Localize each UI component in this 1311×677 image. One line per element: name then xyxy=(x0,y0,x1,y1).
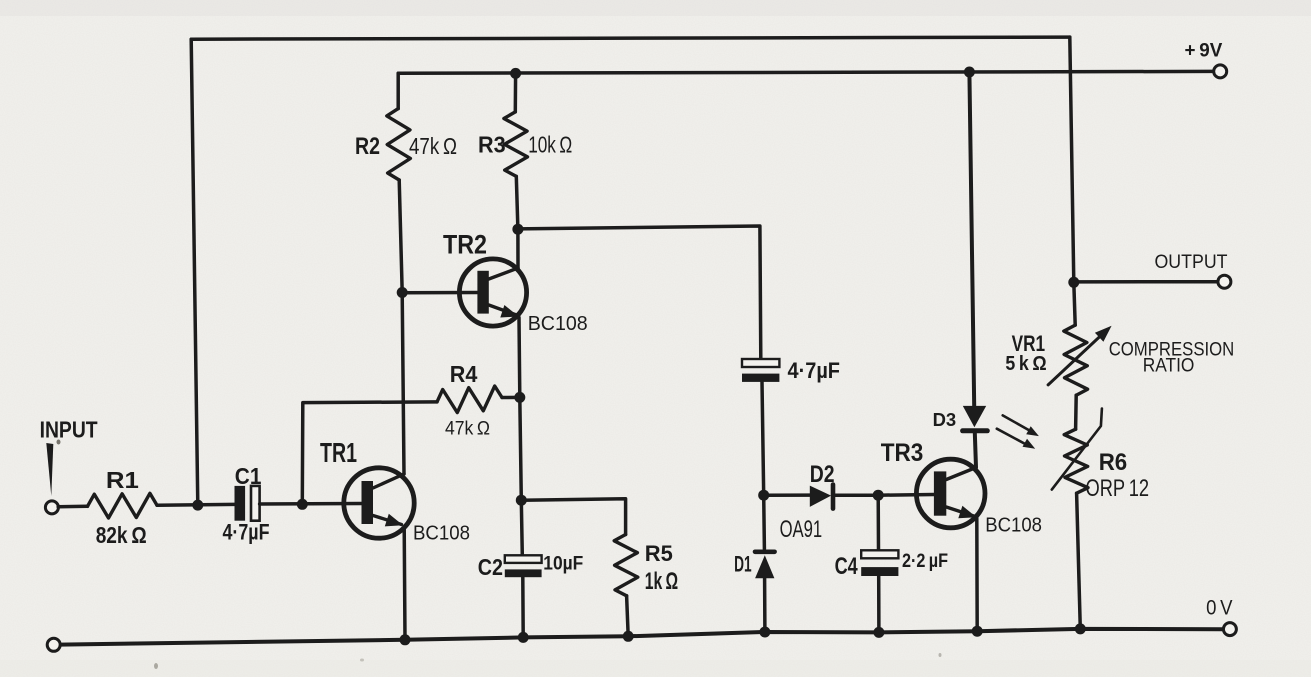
svg-text:R2: R2 xyxy=(355,133,380,160)
svg-text:R3: R3 xyxy=(478,132,506,158)
node TR1 base / R4 feedback junction xyxy=(297,499,308,510)
label 10&#181;F (C2 value) xyxy=(543,553,583,575)
svg-text:4·7µF: 4·7µF xyxy=(223,520,270,545)
svg-text:R4: R4 xyxy=(450,361,478,387)
node D3 column on +9V rail xyxy=(964,67,975,78)
+9V terminal xyxy=(1214,65,1227,78)
wire junction down to C2 xyxy=(521,500,522,555)
node TR1 emitter on 0V rail xyxy=(400,634,411,645)
OUTPUT terminal xyxy=(1218,275,1231,288)
svg-text:D2: D2 xyxy=(810,461,835,488)
transistor TR1 emitter diagonal xyxy=(373,516,402,525)
resistor R2 xyxy=(387,109,411,180)
node D2 / C4 / TR3 base junction xyxy=(873,490,884,501)
node TR2 emitter / C2 / R5 junction xyxy=(516,495,527,506)
label TR3 xyxy=(881,439,924,467)
wire C4 down to 0V xyxy=(877,576,881,632)
label 0V xyxy=(1206,597,1232,620)
wire TR3 base line xyxy=(878,493,934,497)
wire C2 down to 0V xyxy=(521,577,525,637)
wire D2 to TR3 base node xyxy=(833,493,878,497)
transistor TR1 base bar xyxy=(362,481,374,524)
wire TR3 emitter down to 0V xyxy=(975,519,979,632)
resistor R6 (LDR ORP12) zigzag xyxy=(1064,429,1088,493)
wire D3 up to +9V rail xyxy=(969,72,974,406)
diode D3 triangle (pointing down) xyxy=(963,406,986,427)
label R3 xyxy=(478,132,506,158)
transistor TR2 base bar xyxy=(477,271,488,314)
wire R3 top lead xyxy=(514,73,518,112)
svg-text:C1: C1 xyxy=(235,463,262,489)
label 2.2uF (C4 value) xyxy=(902,551,948,572)
INPUT terminal xyxy=(45,501,58,514)
wire C1 to TR1 base xyxy=(260,502,362,506)
transistor TR3 base bar xyxy=(934,471,946,515)
svg-text:D1: D1 xyxy=(734,551,752,576)
label 4.7uF (coupling cap value) xyxy=(788,358,841,383)
resistor R5 xyxy=(614,535,638,596)
wire D1 node to D2 xyxy=(764,493,810,497)
svg-text:0 V: 0 V xyxy=(1206,597,1232,620)
wire node down to C4 xyxy=(876,495,880,550)
label BC108 (TR2) xyxy=(528,312,588,335)
light arrow 2 from D3 xyxy=(997,429,1035,449)
capacitor C-4.7uF positive plate (hollow) xyxy=(742,359,779,367)
transistor TR2 emitter diagonal xyxy=(489,305,517,315)
label D3 xyxy=(933,410,957,430)
wire right outer vertical down to OUTPUT node and VR1 xyxy=(1070,37,1075,325)
wire top outer loop (TR1 input column to VR1 column) xyxy=(191,37,1070,39)
node C2 on 0V rail xyxy=(518,632,529,643)
VR1 wiper arrow xyxy=(1048,326,1112,385)
resistor R1 xyxy=(88,493,158,518)
label 5k&#937; (VR1 value) xyxy=(1005,353,1046,375)
svg-text:5 k Ω: 5 k Ω xyxy=(1005,353,1046,375)
node R5 on 0V rail xyxy=(623,631,634,642)
svg-text:R1: R1 xyxy=(106,467,139,493)
capacitor C2 positive plate (hollow) xyxy=(505,555,542,563)
capacitor C2 negative plate (solid) xyxy=(505,569,542,577)
diode D3 cathode bar xyxy=(963,428,988,433)
svg-text:47k Ω: 47k Ω xyxy=(445,418,490,440)
label D2 xyxy=(810,461,835,488)
label R4 xyxy=(450,361,478,387)
label 10k&#937; (R3 value) xyxy=(528,132,572,158)
label OUTPUT xyxy=(1155,251,1228,273)
svg-text:47k Ω: 47k Ω xyxy=(409,133,457,159)
wire 0V rail xyxy=(60,629,1224,645)
label TR2 xyxy=(443,230,487,260)
svg-text:TR1: TR1 xyxy=(320,437,357,468)
resistor R3 xyxy=(504,112,528,176)
wire R5 bottom lead to 0V xyxy=(627,596,629,637)
svg-text:BC108: BC108 xyxy=(985,514,1042,537)
svg-text:10k Ω: 10k Ω xyxy=(528,132,572,158)
wire TR2 collector node to coupling cap column xyxy=(518,226,761,359)
diode D2 cathode bar xyxy=(831,485,836,509)
node D1 / D2 junction xyxy=(758,490,769,501)
wire input to R1 xyxy=(58,505,87,509)
R6 LDR diagonal strike xyxy=(1052,409,1102,490)
node R2 / TR1 collector / TR2 base junction xyxy=(397,287,408,298)
label 47k&#937; (R4 value) xyxy=(445,418,490,440)
wire R6 bottom lead to 0V xyxy=(1077,493,1081,629)
wire R4 feedback left leg xyxy=(302,402,437,504)
diode D2 triangle (pointing right) xyxy=(810,486,831,507)
svg-text:ORP 12: ORP 12 xyxy=(1086,475,1150,502)
node OUTPUT junction xyxy=(1068,277,1079,288)
light arrow 1 from D3 xyxy=(1003,415,1039,436)
transistor TR3 emitter diagonal xyxy=(946,507,974,516)
capacitor C4 negative plate (solid) xyxy=(861,567,898,576)
wire R4 to TR2 emitter line xyxy=(502,396,520,400)
label +9V xyxy=(1185,41,1223,62)
svg-text:BC108: BC108 xyxy=(528,312,588,335)
svg-text:4·7µF: 4·7µF xyxy=(788,358,841,383)
svg-text:OUTPUT: OUTPUT xyxy=(1155,251,1228,273)
label R2 xyxy=(355,133,380,160)
label ORP12 (R6 type) xyxy=(1086,475,1150,502)
node R6 on 0V rail xyxy=(1075,623,1086,634)
wire left vertical from top loop down to input signal node xyxy=(191,39,198,505)
label C4 xyxy=(835,553,859,580)
label R6 xyxy=(1099,449,1128,476)
svg-text:2·2 µF: 2·2 µF xyxy=(902,551,948,572)
label INPUT xyxy=(40,417,98,443)
svg-text:+ 9V: + 9V xyxy=(1185,41,1223,62)
svg-text:R6: R6 xyxy=(1099,449,1128,476)
svg-text:R5: R5 xyxy=(645,541,673,566)
label VR1 xyxy=(1012,331,1046,356)
wire TR1 collector up to TR2 base node xyxy=(402,294,404,475)
label 82k&#937; (R1 value) xyxy=(96,522,147,548)
label R1 xyxy=(106,467,139,493)
capacitor C1 positive plate (hollow) xyxy=(251,486,260,521)
wire R1 to C1 xyxy=(157,503,235,507)
wire TR2 base line from R2 node xyxy=(402,291,477,295)
label D1 xyxy=(734,551,752,576)
transistor TR3 collector diagonal xyxy=(946,468,976,480)
label COMPRESSION xyxy=(1109,339,1235,360)
transistor TR2 collector diagonal xyxy=(489,268,518,279)
svg-text:C2: C2 xyxy=(478,554,503,580)
transistor TR3 emitter arrowhead xyxy=(958,506,976,519)
diode D1 cathode bar xyxy=(755,549,775,554)
label BC108 (TR3) xyxy=(985,514,1042,537)
label C2 xyxy=(478,554,503,580)
wire D1 down to 0V xyxy=(763,578,767,632)
0V terminal right xyxy=(1223,623,1236,636)
wire TR2 collector up to node xyxy=(516,229,520,268)
label R5 xyxy=(645,541,673,566)
node R4 / TR2 emitter junction xyxy=(514,392,525,403)
wire R5 branch horizontal xyxy=(521,499,625,535)
label BC108 (TR1) xyxy=(413,522,470,545)
wire OUTPUT lead xyxy=(1074,280,1218,284)
diode D1 triangle (pointing up) xyxy=(755,555,774,578)
svg-text:TR2: TR2 xyxy=(443,230,487,260)
label 1k&#937; (R5 value) xyxy=(645,568,678,595)
svg-text:TR3: TR3 xyxy=(881,439,924,467)
svg-text:1k Ω: 1k Ω xyxy=(645,568,678,595)
label OA91 (D2 type) xyxy=(780,516,823,543)
node TR3 emitter on 0V rail xyxy=(972,626,983,637)
capacitor C4 positive plate (hollow) xyxy=(861,550,898,558)
wire VR1 to R6 xyxy=(1074,395,1078,429)
wire node down to D1 xyxy=(762,495,766,549)
wire TR2 emitter down chain xyxy=(519,318,521,501)
node D1 on 0V rail xyxy=(759,627,770,638)
label RATIO xyxy=(1143,356,1195,377)
label TR1 xyxy=(320,437,357,468)
wire R2 top lead from +9V rail xyxy=(396,73,400,108)
label 47k&#937; (R2 value) xyxy=(409,133,457,159)
transistor TR1 emitter arrowhead xyxy=(385,514,403,527)
svg-text:RATIO: RATIO xyxy=(1143,356,1195,377)
capacitor C1 negative plate (solid) xyxy=(235,486,246,521)
svg-text:82k Ω: 82k Ω xyxy=(96,522,147,548)
0V terminal left (input ground) xyxy=(47,638,60,651)
svg-text:10µF: 10µF xyxy=(543,553,583,575)
wire coupling cap down to D1/D2 node xyxy=(762,382,764,495)
transistor TR2 emitter arrowhead xyxy=(500,305,518,318)
input pointer wedge xyxy=(46,443,53,496)
wire +9V rail xyxy=(398,71,1213,73)
wire TR3 collector up to D3 xyxy=(975,433,976,468)
svg-text:BC108: BC108 xyxy=(413,522,470,545)
transistor TR3 body circle xyxy=(916,459,985,528)
wire TR1 emitter down to 0V xyxy=(402,527,406,640)
transistor TR2 body circle xyxy=(459,259,526,326)
wire R2 bottom lead to TR2 base node xyxy=(399,180,402,293)
resistor R4 xyxy=(437,386,502,413)
transistor TR1 collector diagonal xyxy=(373,474,404,488)
label 4.7uF (C1 value) xyxy=(223,520,270,545)
node TR2 collector junction xyxy=(512,224,523,235)
node R3 top on +9V rail xyxy=(510,68,521,79)
capacitor C-4.7uF negative plate (solid) xyxy=(742,374,779,382)
node input column junction xyxy=(192,500,203,511)
svg-text:OA91: OA91 xyxy=(780,516,823,543)
svg-text:C4: C4 xyxy=(835,553,859,580)
node C4 on 0V rail xyxy=(873,627,884,638)
label C1 xyxy=(235,463,262,489)
transistor TR1 body circle xyxy=(344,468,414,538)
svg-text:D3: D3 xyxy=(933,410,957,430)
resistor VR1 (potentiometer) zigzag xyxy=(1064,325,1088,395)
wire R3 bottom lead to TR2 collector node xyxy=(516,176,518,229)
svg-text:INPUT: INPUT xyxy=(40,417,98,443)
